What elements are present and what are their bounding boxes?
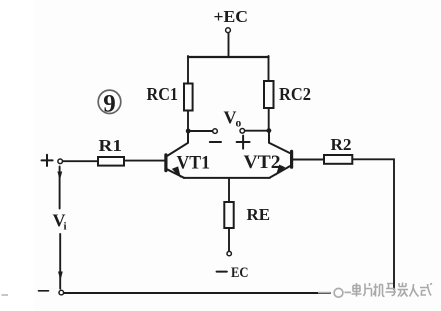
svg-text:RC1: RC1 [147,84,179,104]
svg-text:R1: R1 [99,136,123,155]
svg-text:VT1: VT1 [177,154,211,174]
svg-text:9: 9 [103,91,116,118]
svg-text:RC2: RC2 [279,84,311,104]
svg-text:o: o [236,118,242,130]
svg-text:R2: R2 [331,135,352,154]
svg-text:VT2: VT2 [244,153,281,173]
svg-text:EC: EC [231,265,249,281]
svg-text:+EC: +EC [214,7,249,26]
svg-text:RE: RE [247,205,271,224]
svg-text:i: i [64,221,67,233]
